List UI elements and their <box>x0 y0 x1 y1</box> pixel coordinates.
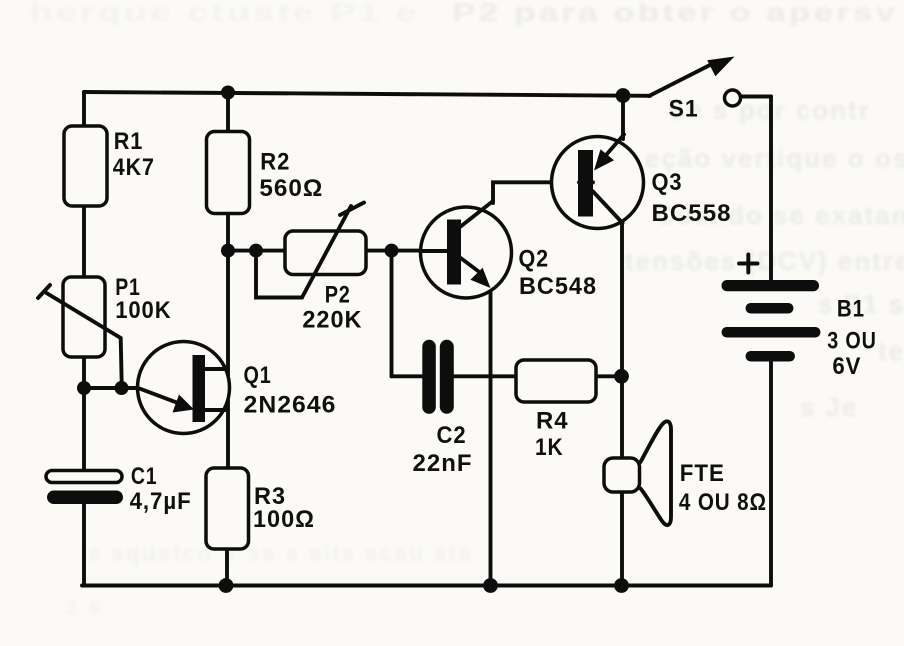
junction node R4 / speaker <box>614 369 629 384</box>
svg-text:S1: S1 <box>669 96 699 123</box>
svg-text:z s: z s <box>66 593 103 619</box>
svg-text:R4: R4 <box>536 408 569 435</box>
svg-text:100Ω: 100Ω <box>253 506 315 533</box>
junction node top-left (R2 top) <box>221 86 235 100</box>
wire left rail segments <box>82 92 86 127</box>
junction node R2 bottom <box>221 244 235 258</box>
svg-text:4,7µF: 4,7µF <box>130 488 192 515</box>
potentiometer P1 <box>38 277 122 388</box>
wire R4 to speaker column <box>595 374 622 378</box>
switch S1 <box>649 57 741 107</box>
svg-text:FTE: FTE <box>680 460 725 487</box>
speaker FTE <box>604 421 671 525</box>
junction node Q2 base / C2 <box>385 244 399 258</box>
transistor Q2 (BC548 NPN) <box>420 201 512 298</box>
svg-text:s Je: s Je <box>800 392 859 422</box>
svg-text:C2: C2 <box>437 422 467 449</box>
resistor R3 <box>206 468 249 549</box>
transistor Q1 (UJT 2N2646) <box>138 342 230 434</box>
wire C2 left lead <box>392 374 424 378</box>
wire R2/R3 rail <box>226 93 230 133</box>
svg-text:P2 para obter o apersv: P2 para obter o apersv <box>452 0 898 27</box>
svg-text:Q2: Q2 <box>519 246 550 273</box>
svg-text:eção vertique o oscil: eção vertique o oscil <box>645 143 904 173</box>
capacitor C2 <box>422 340 454 414</box>
svg-text:1K: 1K <box>535 434 564 461</box>
potentiometer P2 <box>285 203 366 298</box>
wire Q3 emitter to S1 node <box>621 96 625 140</box>
svg-text:4K7: 4K7 <box>113 154 155 181</box>
svg-text:3 OU: 3 OU <box>827 328 876 355</box>
svg-text:P2: P2 <box>325 282 351 309</box>
wire P2 row <box>228 249 420 253</box>
wire speaker column <box>620 222 624 459</box>
svg-text:220K: 220K <box>302 307 362 334</box>
svg-text:100K: 100K <box>115 297 171 324</box>
wire top rail <box>84 92 650 96</box>
wire C2 branch vertical <box>390 251 394 377</box>
svg-text:560Ω: 560Ω <box>259 175 323 202</box>
resistor R4 <box>516 360 596 402</box>
svg-text:B1: B1 <box>837 296 865 323</box>
svg-text:te s: te s <box>878 336 904 366</box>
battery B1 <box>722 255 821 362</box>
svg-text:Q1: Q1 <box>244 362 272 389</box>
junction node P1 wiper <box>115 381 129 395</box>
junction node bottom Q2 emitter <box>483 578 498 593</box>
svg-text:R2: R2 <box>260 149 290 176</box>
junction node S1 <box>616 88 631 103</box>
junction node bottom speaker <box>614 578 629 593</box>
wire bottom rail <box>82 584 771 588</box>
wire C2 to R4 lead <box>453 374 517 378</box>
junction node P2 loop <box>249 244 263 258</box>
wire Q2 collector to Q3 base <box>493 182 579 203</box>
wire Q1 emitter row <box>84 386 141 390</box>
svg-text:2N2646: 2N2646 <box>244 392 337 419</box>
svg-text:BC558: BC558 <box>652 200 732 227</box>
svg-text:Q3: Q3 <box>652 169 683 196</box>
junction node bottom R3 <box>219 578 234 593</box>
resistor R2 <box>207 132 250 214</box>
svg-text:4 OU 8Ω: 4 OU 8Ω <box>679 489 767 516</box>
wire P2 lower loop <box>256 251 302 298</box>
wire Q2 emitter column <box>489 287 493 586</box>
capacitor C1 <box>46 471 123 505</box>
svg-text:6V: 6V <box>832 353 861 380</box>
svg-text:BC548: BC548 <box>519 273 597 300</box>
svg-text:tensões (DCV) entre s: tensões (DCV) entre s <box>625 246 904 276</box>
svg-text:C1: C1 <box>131 463 158 490</box>
transistor Q3 (BC558 PNP) <box>552 135 644 229</box>
svg-text:R1: R1 <box>114 128 144 155</box>
resistor R1 <box>64 126 107 206</box>
svg-text:22nF: 22nF <box>413 450 473 477</box>
wire battery column <box>741 95 771 99</box>
svg-text:herque ctuste P1 e: herque ctuste P1 e <box>30 0 420 27</box>
junction node left rail / emitter row <box>77 381 91 395</box>
svg-text:s squstco V ss s sits: s squstco V ss s sits scsu sts <box>88 540 473 566</box>
